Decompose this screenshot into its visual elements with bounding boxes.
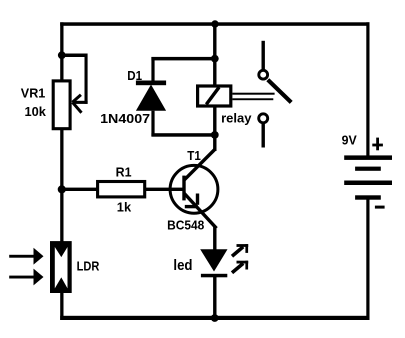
diode D1 cathode bar — [136, 81, 166, 86]
wire: emitter to LED lead — [213, 226, 216, 250]
LED triangle — [200, 249, 227, 271]
transistor T1 base bar — [182, 176, 185, 201]
svg-text:LDR: LDR — [77, 259, 100, 274]
wire: contact upper stub — [262, 41, 265, 70]
transistor T1 emitter diagonal — [184, 193, 217, 228]
relay actuator link line 1 — [232, 93, 274, 95]
transistor T1 emitter arrow vertical stroke — [196, 194, 199, 205]
light arrow 2 head — [34, 269, 44, 286]
node: collector junction (relay loop bottom) — [211, 131, 219, 139]
LED light arrow 2 shaft — [232, 263, 243, 272]
node: LED bottom junction — [211, 314, 219, 322]
svg-text:D1: D1 — [127, 68, 142, 83]
relay actuator link line 2 — [232, 98, 273, 100]
wire: snubber loop top — [151, 57, 216, 61]
wire: diode D1 top lead — [151, 57, 154, 83]
wire: diode D1 bottom lead — [151, 111, 154, 136]
wire: vertical from top rail to snubber loop — [213, 24, 216, 60]
diode D1 triangle — [136, 85, 166, 111]
light arrow 2 shaft — [9, 276, 37, 279]
wire: right rail lower (from battery -) — [366, 199, 369, 321]
battery plate 1 long positive — [344, 155, 392, 160]
battery minus sign — [375, 206, 385, 209]
wire: left rail — [60, 22, 63, 320]
potentiometer VR1 body — [53, 81, 70, 129]
light arrow 1 head — [34, 248, 44, 265]
resistor R1 body — [98, 182, 145, 197]
LDR body box — [50, 241, 72, 293]
transistor T1 circle — [170, 165, 218, 213]
relay contact lower terminal circle — [259, 114, 268, 123]
wire: snubber loop bottom — [151, 133, 216, 137]
light arrow 1 at LDR shaft — [9, 255, 37, 258]
svg-text:10k: 10k — [25, 104, 47, 119]
relay contact lever — [268, 80, 291, 103]
LED light arrow 1 head right stroke — [245, 244, 248, 253]
wire: collector branch vertical — [213, 134, 216, 151]
wire: LED to bottom rail — [213, 277, 216, 318]
LED light arrow 1 shaft — [232, 247, 243, 256]
wire: bottom rail — [60, 316, 369, 320]
LDR inner window — [55, 247, 68, 288]
relay coil box — [198, 86, 231, 106]
LED light arrow 2 head top stroke — [237, 261, 249, 264]
battery plate 3 long — [344, 181, 392, 186]
svg-text:led: led — [173, 258, 192, 274]
svg-text:9V: 9V — [342, 132, 357, 147]
node: relay branch on top rail — [211, 20, 218, 27]
wire: wiper vertical drop — [85, 54, 88, 104]
wire: relay coil vertical through box — [213, 58, 216, 136]
battery plate 4 short negative — [355, 195, 381, 199]
wire: wiper arrow shaft — [73, 101, 88, 104]
wire: R1 to transistor base — [146, 188, 184, 191]
LED light arrow 2 head right stroke — [245, 261, 248, 270]
wire: wiper horizontal from node — [62, 54, 86, 58]
wire: base wire from left rail to R1 — [62, 188, 98, 191]
transistor T1 emitter arrow horizontal stroke — [185, 205, 198, 208]
node: wiper tap junction — [58, 51, 66, 59]
svg-text:VR1: VR1 — [21, 85, 46, 100]
svg-text:T1: T1 — [187, 148, 201, 163]
svg-text:1N4007: 1N4007 — [100, 111, 150, 126]
node: snubber loop top junction — [211, 55, 219, 63]
wire: top rail — [60, 22, 369, 26]
relay contact upper terminal circle — [259, 70, 268, 79]
relay coil diagonal — [206, 87, 219, 104]
transistor T1 collector diagonal — [184, 149, 215, 180]
svg-text:BC548: BC548 — [167, 218, 204, 233]
node: base tap junction on left rail — [58, 185, 66, 193]
LED light arrow 1 head top stroke — [237, 244, 249, 247]
wire: right rail upper (to battery +) — [366, 22, 369, 156]
wire: contact lower stub — [262, 124, 265, 148]
svg-text:relay: relay — [221, 110, 252, 125]
svg-text:1k: 1k — [117, 199, 132, 214]
svg-text:R1: R1 — [116, 164, 132, 179]
LED cathode bar — [201, 274, 227, 278]
battery plus sign — [372, 138, 383, 151]
battery plate 2 short — [355, 167, 381, 171]
wiper arrowhead into VR1 — [72, 95, 81, 113]
